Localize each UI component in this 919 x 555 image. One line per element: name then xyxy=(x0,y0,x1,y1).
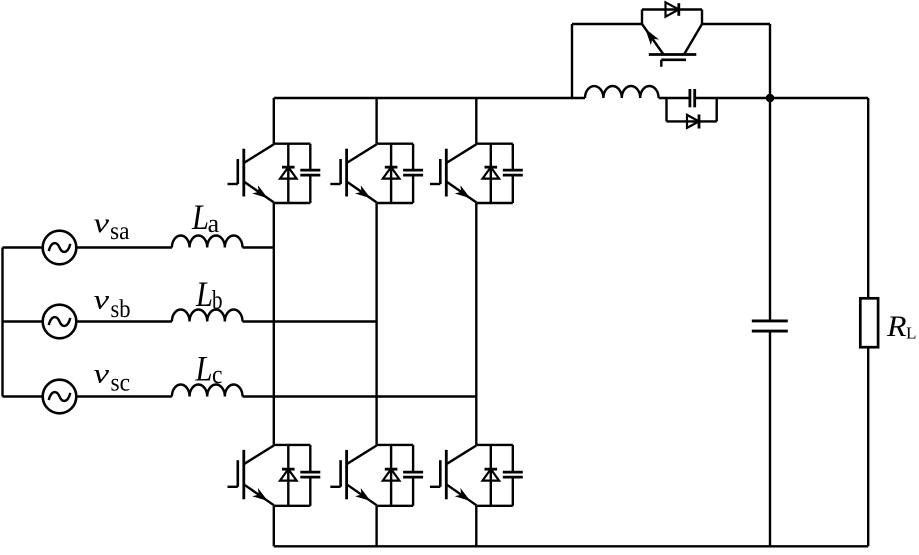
svg-text:a: a xyxy=(208,209,220,238)
svg-text:v: v xyxy=(94,359,110,389)
svg-text:sb: sb xyxy=(111,294,131,323)
svg-text:L: L xyxy=(191,197,209,237)
svg-text:v: v xyxy=(94,285,110,315)
svg-text:sa: sa xyxy=(110,216,130,245)
svg-text:c: c xyxy=(212,360,223,389)
svg-text:v: v xyxy=(94,208,110,238)
svg-text:R: R xyxy=(886,310,907,343)
svg-text:L: L xyxy=(195,274,213,314)
svg-text:L: L xyxy=(906,324,917,343)
svg-text:b: b xyxy=(212,286,223,315)
svg-text:sc: sc xyxy=(111,367,131,396)
svg-text:L: L xyxy=(195,349,213,389)
